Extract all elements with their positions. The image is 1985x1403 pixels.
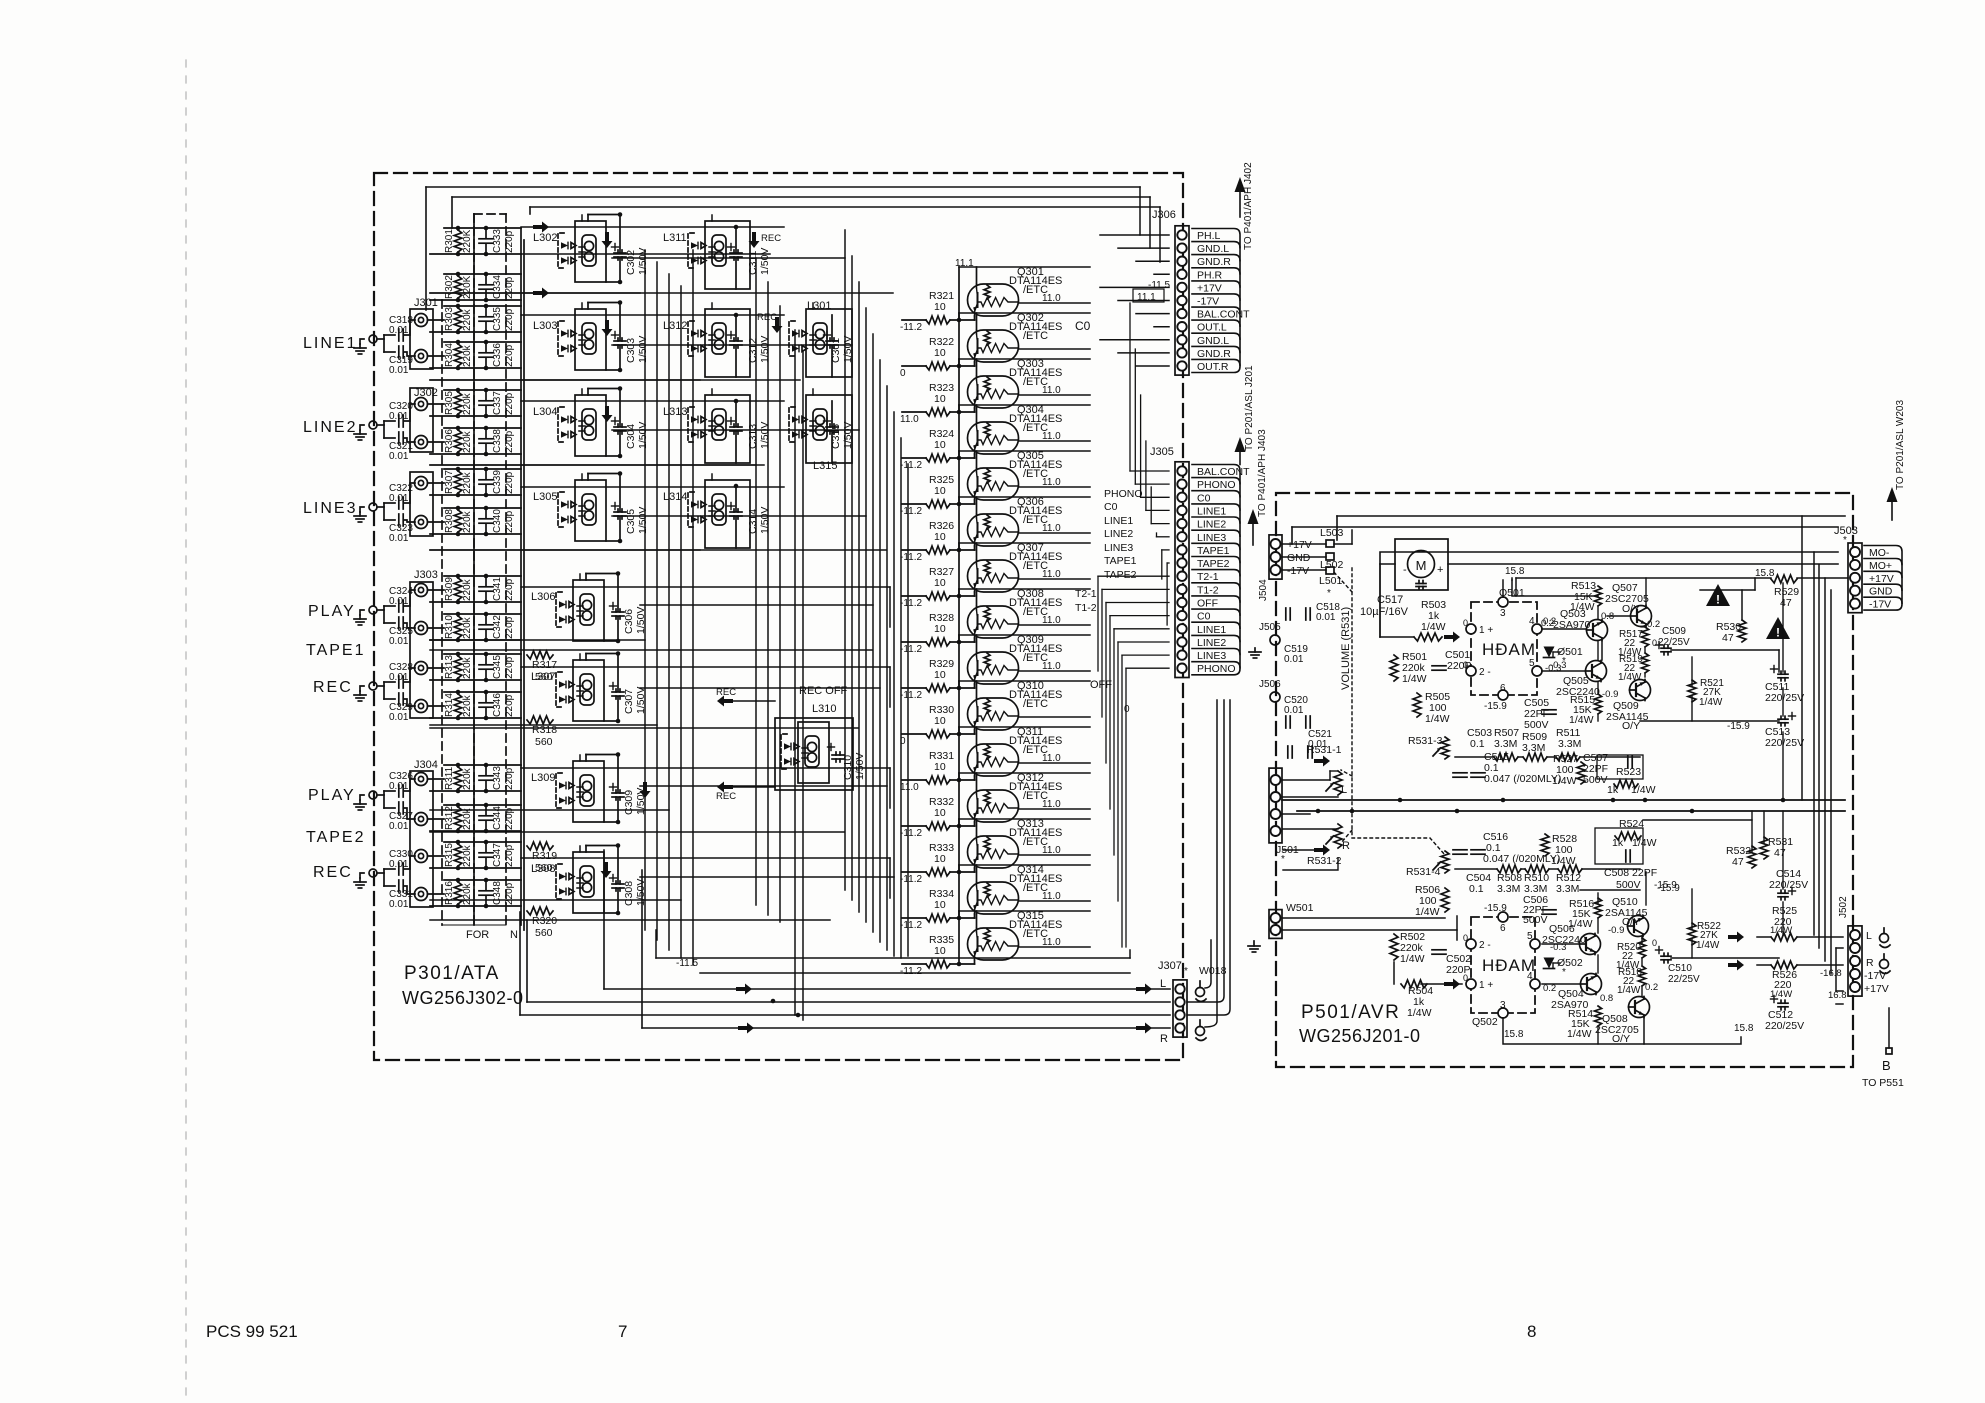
input terminal REC2 <box>354 869 377 888</box>
arrow left REC (row L307) <box>717 696 733 707</box>
svg-text:220p: 220p <box>504 882 515 905</box>
switch module L306 <box>531 580 604 641</box>
wire base feed Q305 <box>958 451 960 504</box>
svg-text:R531-2: R531-2 <box>1307 855 1342 867</box>
resistor R316 220k <box>430 878 521 909</box>
svg-text:-11.2: -11.2 <box>900 552 922 563</box>
svg-text:TAPE2: TAPE2 <box>1197 558 1230 570</box>
wire collector Q304 <box>976 405 978 422</box>
svg-text:WG256J302-0: WG256J302-0 <box>402 988 524 1008</box>
right block wires <box>1283 516 1848 1044</box>
svg-text:R320: R320 <box>532 915 557 927</box>
svg-text:220p: 220p <box>504 276 515 299</box>
svg-text:C517: C517 <box>1377 594 1403 606</box>
transistor Q301 <box>968 266 1063 316</box>
svg-text:R309: R309 <box>444 577 455 601</box>
svg-text:-17V: -17V <box>1864 970 1886 982</box>
switch module L304 <box>533 395 606 456</box>
svg-text:TO P551: TO P551 <box>1862 1077 1904 1089</box>
svg-text:GND.R: GND.R <box>1197 256 1231 268</box>
svg-text:OUT.R: OUT.R <box>1197 361 1229 373</box>
svg-text:5: 5 <box>1527 931 1533 942</box>
resistor R335 10 <box>902 934 975 968</box>
ground near J307 <box>1253 941 1255 946</box>
arrow down near L308 <box>601 862 612 878</box>
svg-text:220p: 220p <box>504 510 515 533</box>
resistor R326 10 <box>902 520 975 554</box>
svg-text:10: 10 <box>934 945 946 957</box>
svg-text:J506: J506 <box>1259 679 1281 690</box>
svg-text:-11.2: -11.2 <box>900 322 922 333</box>
P501/AVR block dashed border <box>1276 493 1853 1067</box>
svg-text:220k: 220k <box>462 767 473 790</box>
svg-text:LINE3: LINE3 <box>1197 650 1226 662</box>
svg-text:15.8: 15.8 <box>1504 1029 1524 1040</box>
capacitor C343 220p <box>479 765 515 791</box>
wire output Q308 <box>1019 624 1091 626</box>
capacitor C304 1/50V <box>588 386 649 458</box>
svg-text:R304: R304 <box>444 343 455 367</box>
transistor Q310 <box>968 680 1063 730</box>
transistor Q311 <box>968 726 1063 776</box>
svg-text:220k: 220k <box>462 308 473 331</box>
svg-text:0.01: 0.01 <box>389 365 409 376</box>
resistor R312 220k <box>430 803 521 834</box>
svg-text:LINE2: LINE2 <box>1197 519 1226 531</box>
svg-text:REC: REC <box>716 791 736 802</box>
svg-text:11.0: 11.0 <box>900 414 919 425</box>
capacitor C339 220p <box>479 469 515 495</box>
svg-text:6: 6 <box>1500 923 1506 934</box>
svg-text:0: 0 <box>1463 973 1468 983</box>
svg-text:C313: C313 <box>747 424 759 449</box>
svg-text:1/4W: 1/4W <box>1421 621 1446 633</box>
resistor R307 220k <box>430 467 521 498</box>
scan edge line <box>185 60 187 1403</box>
svg-text:-11.2: -11.2 <box>900 644 922 655</box>
svg-text:R305: R305 <box>444 391 455 415</box>
svg-text:C340: C340 <box>492 509 503 533</box>
svg-text:B: B <box>1882 1058 1891 1073</box>
svg-text:O/Y: O/Y <box>1612 1033 1630 1045</box>
svg-text:T1-2: T1-2 <box>1197 584 1219 596</box>
svg-text:1/4W: 1/4W <box>1570 601 1595 613</box>
svg-text:1/4W: 1/4W <box>1402 673 1427 685</box>
svg-text:/ETC: /ETC <box>1023 330 1048 342</box>
capacitor C327 0.01 <box>384 802 415 832</box>
resistor R301 220K <box>430 226 521 257</box>
svg-text:1/4W: 1/4W <box>1552 775 1577 787</box>
svg-text:220k: 220k <box>462 578 473 601</box>
capacitor C329 0.01 <box>384 693 415 723</box>
P301/ATA block dashed border <box>374 173 1183 1060</box>
svg-text:+17V: +17V <box>1869 573 1894 585</box>
svg-text:3: 3 <box>1500 608 1506 619</box>
svg-text:0.01: 0.01 <box>389 712 409 723</box>
svg-text:560: 560 <box>535 736 553 748</box>
svg-text:LINE2: LINE2 <box>303 419 357 436</box>
svg-text:-: - <box>1403 564 1407 576</box>
resistor R323 10 <box>902 382 975 416</box>
capacitor C341 220p <box>479 576 515 602</box>
resistor R318 560 <box>527 716 557 748</box>
svg-text:PHONO: PHONO <box>1197 479 1236 491</box>
resistor R529 47 <box>1771 575 1797 583</box>
resistor R320 560 <box>527 907 557 939</box>
svg-text:+17V: +17V <box>1864 983 1889 995</box>
svg-text:10: 10 <box>934 439 946 451</box>
svg-text:1/50V: 1/50V <box>759 507 771 534</box>
svg-text:R311: R311 <box>444 766 455 790</box>
arrow down near L303 <box>602 320 613 336</box>
capacitor C331 0.01 <box>384 880 415 910</box>
resistor R329 10 <box>902 658 975 692</box>
svg-text:P501/AVR: P501/AVR <box>1301 1002 1400 1023</box>
svg-text:1/4W: 1/4W <box>1568 918 1593 930</box>
diode D501 <box>1544 647 1555 658</box>
svg-text:R318: R318 <box>532 724 557 736</box>
svg-text:C314: C314 <box>747 509 759 534</box>
svg-text:REC OFF: REC OFF <box>799 685 848 697</box>
wire collector Q310 <box>976 681 978 698</box>
svg-text:0: 0 <box>1463 933 1468 943</box>
svg-text:500V: 500V <box>1523 914 1548 926</box>
wire output Q305 <box>1019 486 1091 488</box>
svg-text:T2-1: T2-1 <box>1075 588 1097 600</box>
svg-text:11.1: 11.1 <box>955 258 974 269</box>
transistor Q313 <box>968 818 1063 868</box>
svg-text:220/25V: 220/25V <box>1765 692 1804 704</box>
svg-text:220k: 220k <box>462 392 473 415</box>
arrow left REC (row L309) <box>717 782 733 793</box>
capacitor C326 0.01 <box>377 771 415 808</box>
svg-text:-17V: -17V <box>1869 599 1891 611</box>
svg-text:!: ! <box>1776 626 1780 640</box>
svg-text:220k: 220k <box>462 344 473 367</box>
wire output Q302 <box>1019 348 1091 350</box>
svg-text:L314: L314 <box>663 491 687 503</box>
arrow right to J502 L <box>1728 932 1744 943</box>
svg-text:C305: C305 <box>625 509 637 534</box>
svg-text:T2-1: T2-1 <box>1197 571 1219 583</box>
capacitor C309 1/50V <box>586 752 647 824</box>
wire collector Q311 <box>976 727 978 744</box>
svg-text:560: 560 <box>535 671 553 683</box>
svg-text:W501: W501 <box>1286 902 1314 914</box>
svg-text:1/4W: 1/4W <box>1618 672 1642 683</box>
svg-text:3.3M: 3.3M <box>1558 738 1581 750</box>
capacitor C323 0.01 <box>384 514 415 544</box>
inner dashed box FOR N <box>474 213 506 215</box>
svg-text:C334: C334 <box>492 275 503 299</box>
top bus wires <box>426 186 1140 188</box>
svg-text:C347: C347 <box>492 843 503 867</box>
wire collector Q307 <box>976 543 978 560</box>
svg-text:PH.L: PH.L <box>1197 230 1221 242</box>
wires to J307 <box>604 988 1170 990</box>
dotted gang line volume <box>1351 568 1353 838</box>
switch module L312 <box>663 309 750 377</box>
svg-text:0.2: 0.2 <box>1645 982 1658 993</box>
svg-text:L310: L310 <box>812 703 836 715</box>
svg-text:1/50V: 1/50V <box>637 248 649 275</box>
svg-text:L305: L305 <box>533 491 557 503</box>
svg-text:C508 22PF: C508 22PF <box>1604 867 1657 879</box>
svg-text:TO P401/APH J403: TO P401/APH J403 <box>1257 429 1268 517</box>
svg-text:VOLUME (R531): VOLUME (R531) <box>1340 607 1352 690</box>
svg-text:C0: C0 <box>1197 492 1211 504</box>
svg-text:220/25V: 220/25V <box>1769 879 1808 891</box>
svg-text:TO P201/ASL J201: TO P201/ASL J201 <box>1244 365 1255 451</box>
transistor Q303 <box>968 358 1063 408</box>
svg-text:-17V: -17V <box>1197 296 1219 308</box>
svg-text:47: 47 <box>1780 597 1792 609</box>
svg-text:220p: 220p <box>504 656 515 679</box>
svg-text:47: 47 <box>1722 632 1734 644</box>
wire base feed Q304 <box>958 405 960 458</box>
svg-text:LINE1: LINE1 <box>1104 515 1133 527</box>
wire base feed Q312 <box>958 773 960 826</box>
wire staircase to J305 <box>1098 303 1169 947</box>
svg-text:TAPE1: TAPE1 <box>1197 545 1230 557</box>
svg-text:1/50V: 1/50V <box>637 422 649 449</box>
svg-text:220k: 220k <box>462 882 473 905</box>
svg-text:WG256J201-0: WG256J201-0 <box>1299 1026 1421 1046</box>
svg-text:500V: 500V <box>1616 879 1641 891</box>
svg-text:15.8: 15.8 <box>1734 1023 1754 1034</box>
svg-text:LINE3: LINE3 <box>1197 532 1226 544</box>
svg-text:10: 10 <box>934 761 946 773</box>
svg-text:0: 0 <box>1652 638 1657 648</box>
wire matrix horizontals <box>430 258 894 900</box>
resistor R321 10 <box>902 290 975 324</box>
wire collector Q312 <box>976 773 978 790</box>
svg-text:220/25V: 220/25V <box>1765 737 1804 749</box>
switch module L308 <box>531 852 604 913</box>
svg-text:220k: 220k <box>462 430 473 453</box>
wire collector Q315 <box>976 911 978 928</box>
wire output Q303 <box>1019 394 1091 396</box>
input terminal LINE3 <box>354 503 377 522</box>
arrow down near L304 <box>602 406 613 422</box>
input terminal PLAY2 <box>354 791 377 810</box>
wire output Q315 <box>1019 946 1091 948</box>
switch module L314 <box>663 480 750 548</box>
transistor Q314 <box>968 864 1063 914</box>
svg-text:0.047 (/020MLY): 0.047 (/020MLY) <box>1484 773 1561 785</box>
svg-text:1 +: 1 + <box>1479 980 1493 991</box>
svg-text:GND.L: GND.L <box>1197 335 1229 347</box>
wire collector Q301 <box>976 267 978 284</box>
arrow down near L311 <box>749 232 760 248</box>
capacitor C338 220p <box>479 428 515 454</box>
jack symbols right of J502 <box>1880 934 1889 943</box>
svg-text:220k: 220k <box>462 694 473 717</box>
to P201/ASL W203 arrow <box>1891 502 1893 520</box>
svg-text:-11.2: -11.2 <box>900 920 922 931</box>
svg-text:MO-: MO- <box>1869 547 1890 559</box>
wire jack stubs <box>428 319 445 321</box>
svg-text:R: R <box>1866 957 1874 969</box>
switch module <box>781 722 829 783</box>
svg-text:PLAY: PLAY <box>308 787 356 804</box>
arrow right to J502 R <box>1728 960 1744 971</box>
warning triangle 2 <box>1766 617 1790 639</box>
transistor Q302 <box>968 312 1063 362</box>
wire output Q309 <box>1019 670 1091 672</box>
svg-text:5: 5 <box>1529 658 1535 669</box>
wire collector Q313 <box>976 819 978 836</box>
svg-text:220k: 220k <box>462 616 473 639</box>
svg-text:500V: 500V <box>1524 719 1549 731</box>
svg-text:PHONO: PHONO <box>1197 663 1236 675</box>
capacitor C334 220p <box>479 274 515 300</box>
capacitor C311 1/50V <box>728 225 772 289</box>
capacitor C321 0.01 <box>384 432 415 462</box>
wire collector Q314 <box>976 865 978 882</box>
capacitor C315 1/50V <box>824 401 855 463</box>
svg-text:J502: J502 <box>1838 896 1849 918</box>
resistor R302 220K <box>430 272 521 303</box>
resistor R317 560 <box>527 651 557 683</box>
svg-text:C0: C0 <box>1075 319 1091 333</box>
svg-text:L: L <box>1341 784 1347 796</box>
capacitor C513 220/25V <box>1778 718 1788 720</box>
svg-text:-15.9: -15.9 <box>1727 721 1750 732</box>
svg-text:C304: C304 <box>625 424 637 449</box>
wire output Q310 <box>1019 716 1091 718</box>
svg-text:1/4W: 1/4W <box>1407 1007 1432 1019</box>
resistor R330 10 <box>902 704 975 738</box>
svg-text:-11.2: -11.2 <box>900 874 922 885</box>
capacitor C318 0.01 <box>377 315 415 352</box>
svg-text:1/4W: 1/4W <box>1770 925 1792 936</box>
svg-text:1/50V: 1/50V <box>759 422 771 449</box>
svg-text:10: 10 <box>934 715 946 727</box>
svg-text:+: + <box>1437 564 1443 576</box>
arrow right to J307 L <box>1136 984 1152 995</box>
capacitor C307 1/50V <box>586 651 647 723</box>
wire base feed Q311 <box>958 727 960 780</box>
svg-text:PLAY: PLAY <box>308 603 356 620</box>
svg-text:REC: REC <box>761 233 781 244</box>
svg-text:J303: J303 <box>414 569 438 581</box>
svg-text:-15.9: -15.9 <box>1654 880 1677 891</box>
wire base feed Q313 <box>958 819 960 872</box>
switch module L313 <box>663 395 750 463</box>
wire collector Q308 <box>976 589 978 606</box>
svg-text:10: 10 <box>934 853 946 865</box>
resistor R314 220k <box>430 690 521 721</box>
svg-text:1/50V: 1/50V <box>759 336 771 363</box>
svg-text:220k: 220k <box>462 844 473 867</box>
capacitor C303 1/50V <box>588 300 649 372</box>
svg-text:J305: J305 <box>1150 446 1174 458</box>
svg-text:220p: 220p <box>504 844 515 867</box>
svg-text:3: 3 <box>1500 1000 1506 1011</box>
wire collector Q309 <box>976 635 978 652</box>
svg-text:C341: C341 <box>492 577 503 601</box>
to P401/APH J403 arrow <box>1252 524 1254 545</box>
svg-text:1k: 1k <box>1612 837 1624 849</box>
switch module L303 <box>533 309 606 370</box>
svg-text:0.2: 0.2 <box>1541 618 1554 629</box>
svg-text:-0.3: -0.3 <box>1550 660 1566 671</box>
svg-text:2 -: 2 - <box>1479 940 1491 951</box>
capacitor C313 1/50V <box>728 399 772 463</box>
svg-text:LINE1: LINE1 <box>303 335 357 352</box>
svg-text:PCS 99 521: PCS 99 521 <box>206 1322 298 1341</box>
svg-text:10: 10 <box>934 347 946 359</box>
module row wires <box>430 215 893 920</box>
svg-text:10: 10 <box>934 301 946 313</box>
switch module L315 <box>789 395 852 472</box>
wire base feed Q303 <box>958 359 960 412</box>
wire output Q311 <box>1019 762 1091 764</box>
svg-text:LINE2: LINE2 <box>1104 528 1133 540</box>
svg-text:4: 4 <box>1529 616 1535 627</box>
svg-text:L303: L303 <box>533 320 557 332</box>
to P401/APH J402 arrow <box>1239 192 1241 217</box>
resistor R328 10 <box>902 612 975 646</box>
svg-text:OUT.L: OUT.L <box>1197 322 1227 334</box>
svg-text:C510: C510 <box>1668 963 1692 974</box>
svg-text:10: 10 <box>934 393 946 405</box>
svg-text:0.1: 0.1 <box>1469 883 1484 895</box>
svg-text:560: 560 <box>535 927 553 939</box>
svg-text:1/4W: 1/4W <box>1617 985 1641 996</box>
svg-text:-15.9: -15.9 <box>1484 903 1507 914</box>
input terminal LINE1 <box>354 335 377 354</box>
svg-text:560: 560 <box>535 862 553 874</box>
switch module L307 <box>531 660 604 721</box>
svg-text:J304: J304 <box>414 759 438 771</box>
svg-text:Ø502: Ø502 <box>1557 957 1583 969</box>
svg-text:220k: 220k <box>462 471 473 494</box>
svg-text:LINE2: LINE2 <box>1197 637 1226 649</box>
svg-text:220p: 220p <box>504 308 515 331</box>
svg-text:LINE3: LINE3 <box>1104 542 1133 554</box>
arrow right to J307 R <box>1136 1023 1152 1034</box>
svg-text:C346: C346 <box>492 693 503 717</box>
svg-text:OFF: OFF <box>1090 679 1112 691</box>
svg-text:HĐAM: HĐAM <box>1482 640 1536 659</box>
svg-text:7: 7 <box>618 1322 627 1341</box>
svg-text:R310: R310 <box>444 615 455 639</box>
svg-text:10: 10 <box>934 577 946 589</box>
svg-text:1/4W: 1/4W <box>1632 837 1657 849</box>
svg-text:1/50V: 1/50V <box>637 507 649 534</box>
transistor Q312 <box>968 772 1063 822</box>
svg-text:47: 47 <box>1732 856 1744 868</box>
svg-text:C342: C342 <box>492 615 503 639</box>
resistor R325 10 <box>902 474 975 508</box>
svg-text:-0.9: -0.9 <box>1602 689 1618 700</box>
mid double bus wires <box>1282 799 1845 801</box>
svg-text:10µF/16V: 10µF/16V <box>1360 606 1409 618</box>
svg-text:L304: L304 <box>533 406 557 418</box>
svg-text:-11.2: -11.2 <box>900 690 922 701</box>
switch module L301 <box>789 300 852 377</box>
J306 pin labels <box>1192 229 1240 373</box>
svg-text:R316: R316 <box>444 881 455 905</box>
HDAM module upper <box>1463 587 1561 712</box>
svg-text:C306: C306 <box>623 609 635 634</box>
motor M501 <box>1395 539 1448 590</box>
wire output Q304 <box>1019 440 1091 442</box>
svg-text:8: 8 <box>1527 1322 1536 1341</box>
svg-text:10: 10 <box>934 623 946 635</box>
